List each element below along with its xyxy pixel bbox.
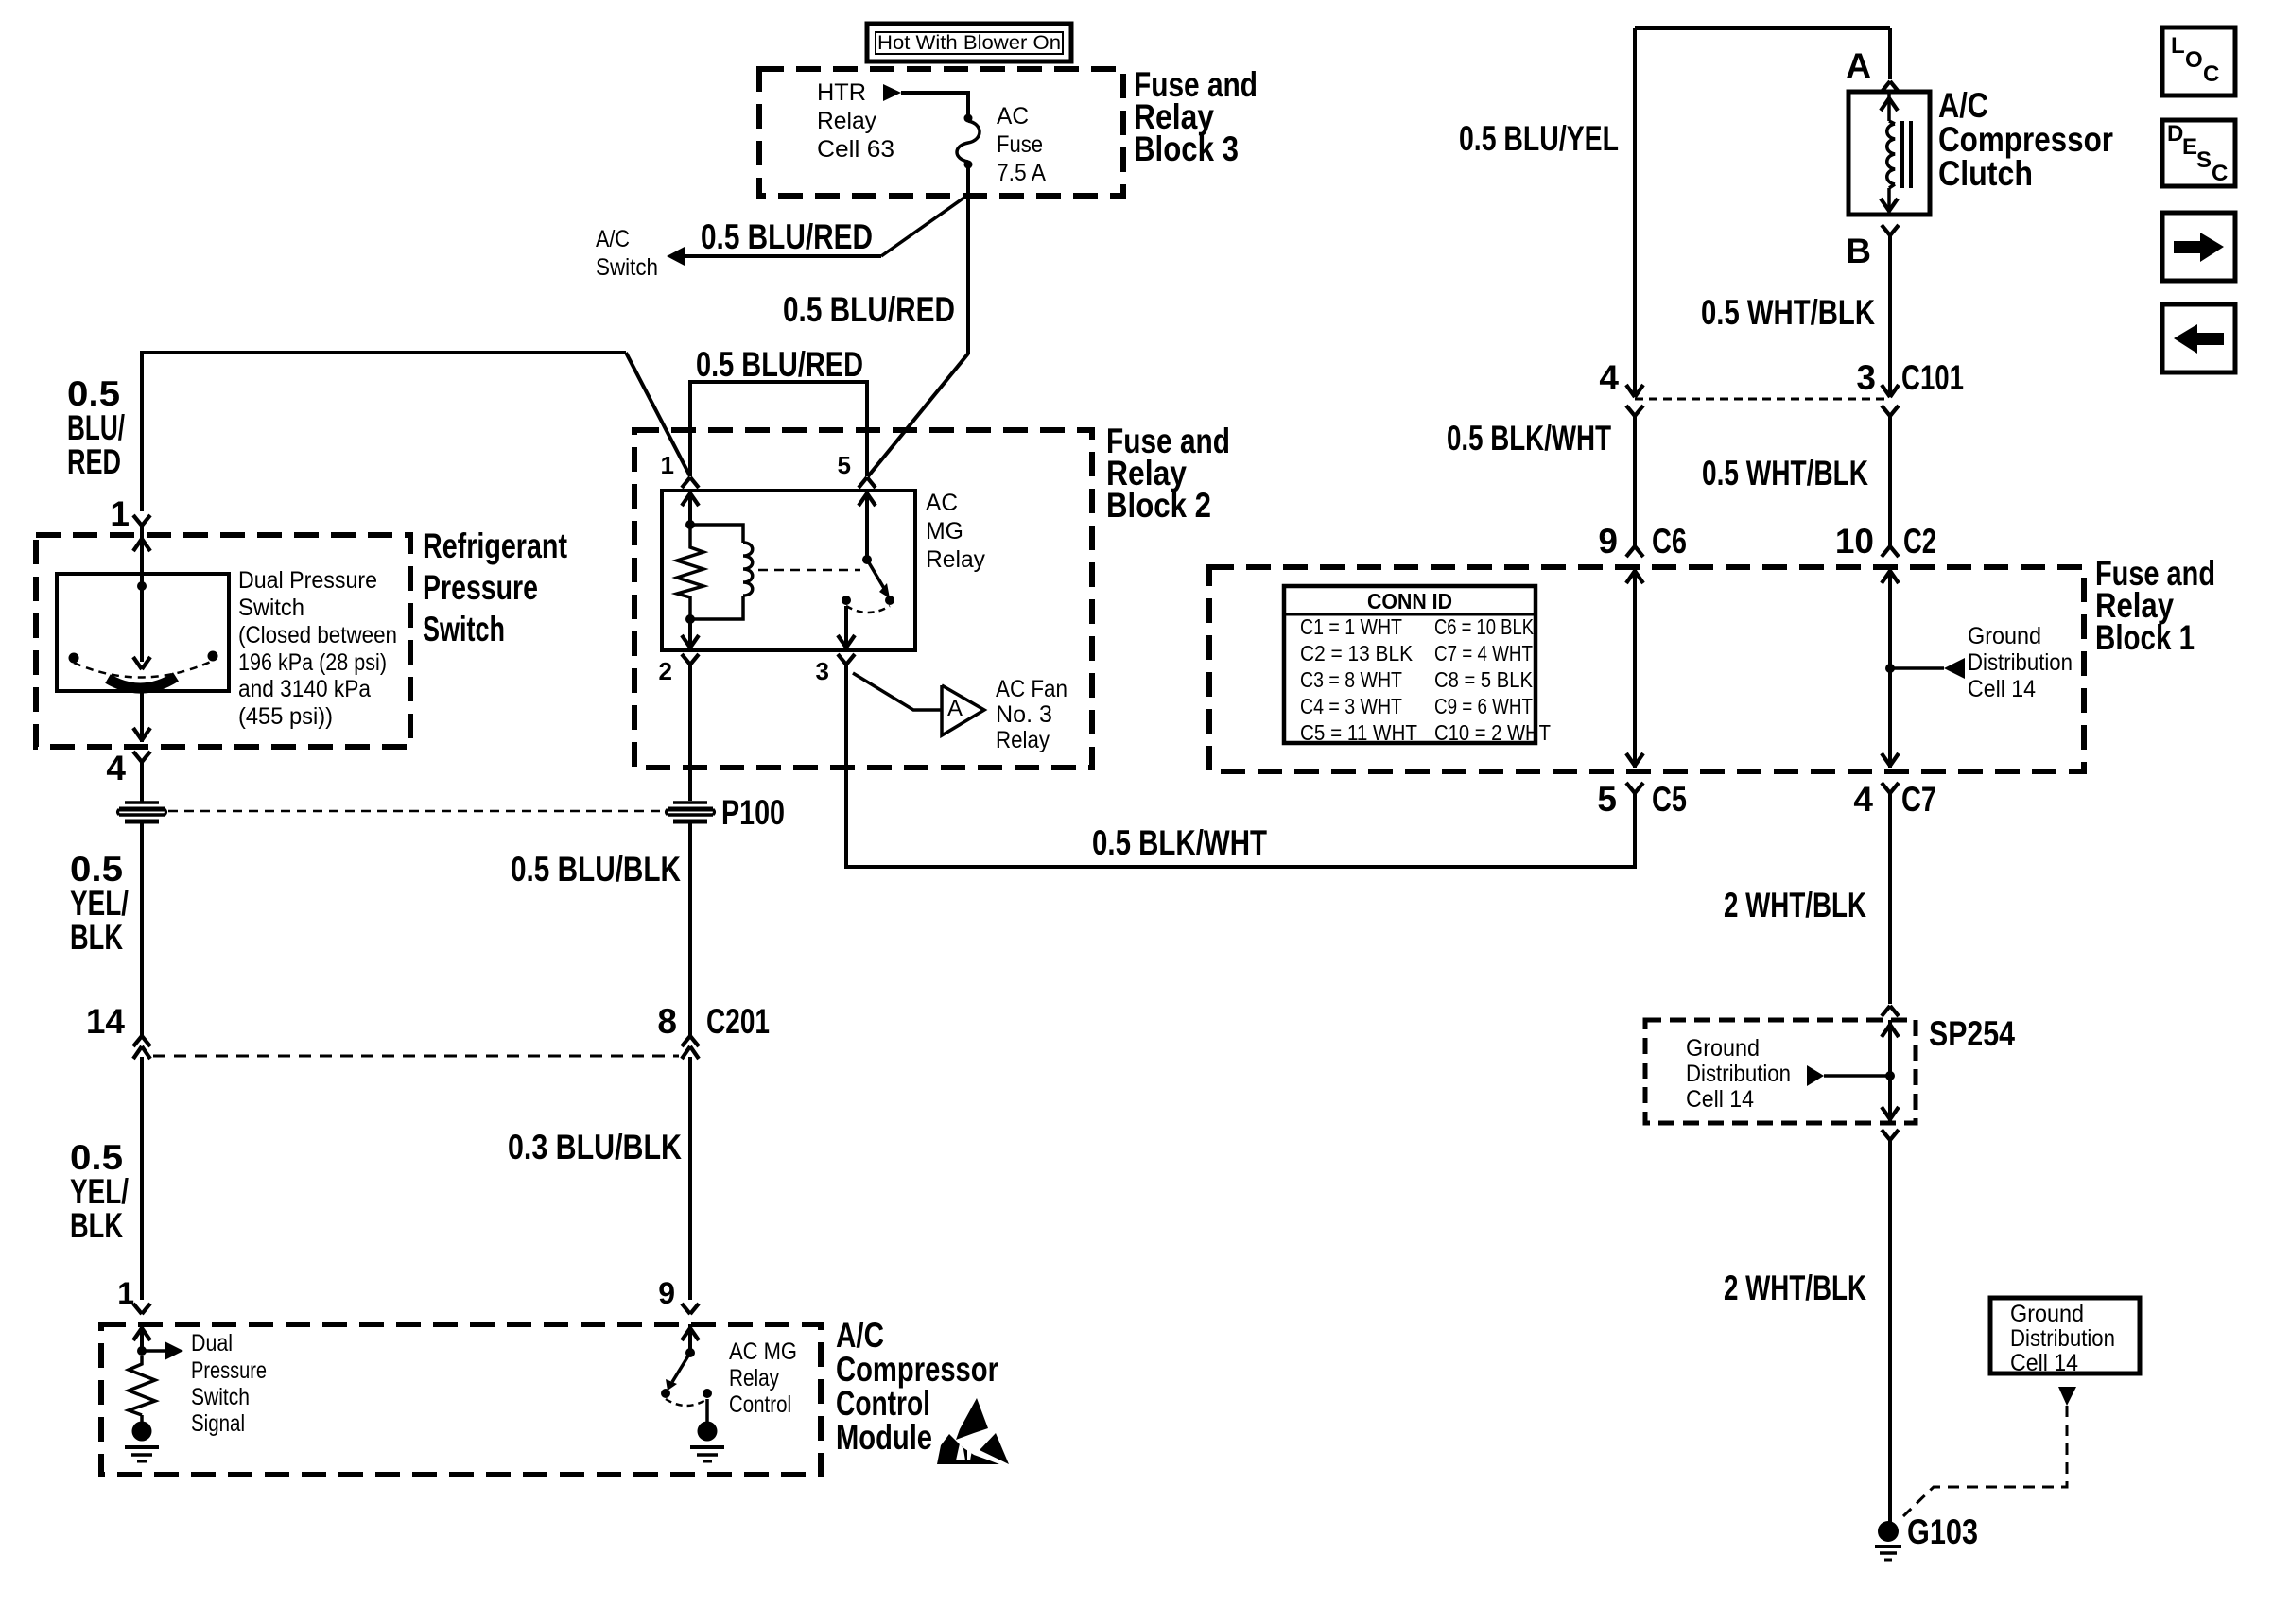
dashed box A/C Compressor Control Module [101, 1324, 821, 1475]
wire clutch feed [1888, 28, 1892, 79]
svg-text:Distribution: Distribution [2010, 1325, 2115, 1352]
label HTR Relay Cell 63 [817, 79, 894, 163]
pin 3 label (C101) [1856, 358, 1876, 397]
block1 ground distribution arrow [1890, 658, 1965, 679]
svg-text:AC: AC [926, 490, 958, 516]
arrow to HTR Relay [883, 84, 901, 101]
ESD warning symbol [937, 1398, 1009, 1464]
label C2 [1903, 522, 1936, 561]
svg-text:Relay: Relay [996, 727, 1050, 753]
svg-text:7.5 A: 7.5 A [997, 160, 1046, 186]
switch top dot [137, 581, 147, 591]
svg-text:Cell 14: Cell 14 [2010, 1350, 2078, 1376]
wire below P100 left [140, 821, 144, 1036]
svg-text:Pressure: Pressure [423, 568, 538, 607]
pin 4 label [106, 749, 126, 787]
label Refrigerant Pressure Switch [423, 527, 567, 648]
relay coil-side pin1 entry [682, 491, 699, 522]
svg-text:Module: Module [836, 1418, 932, 1457]
pin 3 label [816, 657, 829, 685]
wire pin4 to P100 [140, 762, 144, 803]
svg-text:HTR: HTR [817, 79, 866, 106]
wire pin3 to C5 [846, 665, 1635, 867]
svg-text:5: 5 [838, 451, 851, 479]
svg-text:(Closed between: (Closed between [238, 622, 397, 648]
label C6 [1652, 522, 1687, 561]
pin 9 label (module) [658, 1276, 675, 1310]
dashed line C101 [1635, 398, 1890, 401]
svg-text:Switch: Switch [423, 610, 505, 648]
button DESC [2162, 120, 2235, 186]
svg-text:4: 4 [1853, 780, 1873, 819]
svg-text:C201: C201 [706, 1002, 770, 1041]
svg-text:Block 2: Block 2 [1106, 486, 1211, 525]
label A/C Compressor Control Module [836, 1316, 998, 1457]
svg-text:C7: C7 [1901, 780, 1936, 819]
svg-text:BLK: BLK [70, 1206, 123, 1245]
pin B label [1846, 232, 1871, 270]
svg-text:Compressor: Compressor [836, 1350, 998, 1389]
pin 2 connector [682, 654, 699, 665]
relay switch pivot dot [862, 555, 872, 564]
svg-text:MG: MG [926, 518, 963, 544]
connector B [1882, 225, 1899, 235]
svg-text:Switch: Switch [191, 1384, 250, 1410]
wire label 0.5 WHT/BLK (lower) [1702, 454, 1868, 492]
svg-text:RED: RED [67, 442, 121, 481]
module ground (pin1 side) [125, 1415, 159, 1461]
module contact dashed arc [666, 1399, 707, 1406]
svg-text:3: 3 [816, 657, 829, 685]
pin 10 label (C2) [1835, 522, 1874, 561]
svg-text:No. 3: No. 3 [996, 701, 1052, 728]
svg-text:Switch: Switch [238, 595, 304, 621]
svg-text:Relay: Relay [926, 546, 985, 573]
wire top run [1635, 26, 1890, 30]
SP254 arrow [1807, 1065, 1890, 1086]
module pin1 dot [137, 1346, 147, 1356]
button LOC [2162, 27, 2235, 95]
wire label 0.5 YEL/ BLK (upper) [70, 850, 129, 957]
label C5 [1652, 780, 1687, 819]
label Dual Pressure Switch Signal [191, 1330, 267, 1437]
label Fuse and Relay Block 1 [2095, 554, 2215, 657]
pin 9 connector (module) [682, 1304, 699, 1314]
connector C201 right half [682, 1036, 699, 1300]
svg-text:9: 9 [1598, 522, 1618, 561]
wire diagonal to relay pin 1 [626, 353, 690, 476]
module pin9 entry [682, 1324, 699, 1350]
svg-text:Signal: Signal [191, 1410, 245, 1437]
resistor (relay) [677, 525, 703, 616]
wire label 0.5 BLU/YEL [1459, 119, 1619, 158]
svg-text:Dual Pressure: Dual Pressure [238, 567, 377, 594]
connector C5 [1626, 783, 1643, 793]
svg-text:C7 = 4 WHT: C7 = 4 WHT [1434, 641, 1533, 665]
connector into SP254 [1882, 1006, 1899, 1016]
wire label 2 WHT/BLK (lower) [1724, 1269, 1866, 1307]
svg-text:BLK: BLK [70, 918, 123, 957]
junction dot coil bottom [685, 614, 695, 624]
relay coil [690, 525, 753, 619]
svg-text:3: 3 [1856, 358, 1876, 397]
svg-text:1: 1 [117, 1276, 134, 1310]
wire label 0.5 BLU/ RED (left) [67, 374, 125, 481]
wire label 0.5 BLU/RED (loop) [696, 345, 863, 384]
svg-text:C8 = 5 BLK: C8 = 5 BLK [1434, 667, 1534, 692]
switch contact dot right [208, 651, 218, 662]
svg-text:(455 psi)): (455 psi)) [238, 703, 333, 730]
svg-text:A: A [947, 696, 963, 721]
svg-text:BLU/: BLU/ [67, 408, 125, 447]
module contact dot left [661, 1389, 670, 1398]
SP254 wire [1882, 1020, 1899, 1123]
relay box AC MG Relay [662, 491, 915, 650]
connector C7 [1882, 783, 1899, 793]
svg-text:0.5 BLU/RED: 0.5 BLU/RED [783, 290, 955, 329]
svg-text:Dual: Dual [191, 1330, 233, 1356]
svg-text:A/C: A/C [1938, 86, 1988, 125]
grommet P100 (right) [667, 803, 715, 821]
svg-text:AC MG: AC MG [729, 1339, 797, 1365]
wire diagonal fuse to relay pin 5 [868, 354, 968, 476]
svg-text:P100: P100 [721, 793, 785, 832]
label A/C Compressor Clutch [1938, 86, 2113, 193]
svg-text:4: 4 [106, 749, 126, 787]
svg-text:YEL/: YEL/ [70, 1172, 129, 1211]
relay mechanical dashed link [758, 569, 860, 572]
dual pressure switch box [57, 574, 229, 691]
junction dot coil top [685, 520, 695, 529]
wire label 0.5 BLK/WHT (long run) [1092, 823, 1267, 862]
pin 1 connector (module) [133, 1304, 150, 1314]
relay contact dashed arc [846, 606, 890, 613]
label Ground Distribution Cell 14 (SP254) [1686, 1035, 1791, 1113]
module switch arm [666, 1353, 690, 1391]
svg-text:C1 = 1 WHT: C1 = 1 WHT [1300, 614, 1402, 639]
svg-text:0.5 BLU/BLK: 0.5 BLU/BLK [511, 850, 681, 889]
label AC Fuse 7.5 A [997, 103, 1046, 186]
module signal arrow [142, 1341, 183, 1360]
label C101 [1901, 358, 1964, 397]
svg-text:4: 4 [1599, 358, 1619, 397]
svg-text:Cell 63: Cell 63 [817, 136, 894, 163]
pin 1 connector [682, 477, 699, 488]
connector into pressure switch [133, 515, 150, 526]
triangle below ground distribution box [2058, 1387, 2076, 1406]
svg-text:0.5 WHT/BLK: 0.5 WHT/BLK [1702, 454, 1868, 492]
dashed line C201 [153, 1055, 679, 1058]
label AC MG Relay Control [729, 1339, 797, 1418]
module pin9 dot [685, 1348, 695, 1357]
svg-text:Block 1: Block 1 [2095, 618, 2195, 657]
svg-text:2 WHT/BLK: 2 WHT/BLK [1724, 1269, 1866, 1307]
wire HTR arrow to AC fuse [901, 93, 968, 115]
svg-text:0.5 BLU/YEL: 0.5 BLU/YEL [1459, 119, 1619, 158]
switch actuator arrow [133, 586, 150, 669]
svg-text:AC Fan: AC Fan [996, 676, 1067, 702]
wire label 0.5 BLU/BLK [511, 850, 681, 889]
block1 left wire [1626, 567, 1643, 768]
dashed box Fuse and Relay Block 1 [1209, 567, 2084, 771]
svg-text:0.5: 0.5 [70, 1138, 123, 1177]
pin 5 connector [859, 477, 876, 488]
svg-text:C9 = 6 WHT: C9 = 6 WHT [1434, 694, 1533, 718]
module pin1 entry [133, 1324, 150, 1348]
connector C101 right [1882, 385, 1899, 546]
svg-text:L: L [2171, 33, 2185, 59]
wire label 2 WHT/BLK (upper) [1724, 886, 1866, 924]
button prev arrow [2162, 304, 2235, 372]
svg-text:C2: C2 [1903, 522, 1936, 561]
svg-text:Relay: Relay [729, 1365, 779, 1391]
label A/C Switch [596, 226, 658, 281]
block1 right wire [1882, 567, 1899, 768]
svg-text:E: E [2182, 134, 2197, 160]
svg-text:1: 1 [661, 451, 674, 479]
wire left vertical to C101 [1633, 28, 1637, 397]
clutch plates [1902, 121, 1911, 188]
label G103 [1907, 1512, 1978, 1551]
wire loop pin1 to pin5 [690, 382, 867, 476]
svg-text:C6 = 10 BLK: C6 = 10 BLK [1434, 614, 1535, 639]
pin 1 label [661, 451, 674, 479]
wire from fuse down [966, 164, 970, 354]
wire horizontal to refrigerant pressure switch [142, 353, 626, 511]
wire label 0.5 BLU/RED (to A/C switch) [701, 217, 873, 256]
fuse F1 'AC Fuse 7.5 A' [957, 114, 980, 169]
relay arrow to pin 2 [682, 619, 699, 650]
wire pin2 to P100 [688, 665, 692, 801]
dashed line P100 [168, 810, 664, 813]
AC Fan No. 3 Relay triangle [942, 685, 984, 735]
connector below SP254 [1882, 1130, 1899, 1140]
dashed box Refrigerant Pressure Switch [36, 535, 410, 747]
svg-text:1: 1 [110, 494, 130, 533]
relay arrow to pin 3 [838, 606, 855, 650]
svg-text:0.5: 0.5 [70, 850, 123, 889]
svg-text:5: 5 [1597, 780, 1617, 819]
wire below P100 right [688, 821, 692, 1036]
svg-text:CONN ID: CONN ID [1367, 589, 1452, 613]
module resistor [129, 1356, 155, 1415]
connector below pressure switch [133, 752, 150, 762]
svg-text:O: O [2185, 47, 2203, 73]
wire label 0.5 WHT/BLK (upper) [1701, 293, 1875, 332]
svg-text:Compressor: Compressor [1938, 120, 2113, 159]
pin 1 label (pressure switch) [110, 494, 130, 533]
wire into switch box [133, 526, 150, 586]
svg-text:C: C [2203, 61, 2219, 87]
label AC MG Relay [926, 490, 985, 573]
clutch coil [1881, 92, 1898, 215]
pin 4 label (C101) [1599, 358, 1619, 397]
module contact dot right [703, 1389, 712, 1398]
connector A [1882, 81, 1899, 92]
A/C Compressor Clutch box [1848, 92, 1930, 215]
svg-text:C5 = 11 WHT: C5 = 11 WHT [1300, 720, 1417, 745]
wire label 0.5 BLU/RED (from fuse) [783, 290, 955, 329]
svg-text:A/C: A/C [596, 226, 630, 252]
wire diagonal fuse to A/C switch line [881, 195, 968, 256]
ground G103 [1875, 1521, 1901, 1560]
pin 1 label (module) [117, 1276, 134, 1310]
switch diaphragm crescent [108, 677, 176, 688]
label C201 [706, 1002, 770, 1041]
label Dual Pressure Switch details [238, 567, 397, 730]
svg-text:Control: Control [836, 1384, 930, 1423]
svg-text:SP254: SP254 [1929, 1014, 2015, 1053]
svg-text:C10 = 2 WHT: C10 = 2 WHT [1434, 720, 1551, 745]
svg-text:AC: AC [997, 103, 1029, 130]
svg-text:C3 = 8 WHT: C3 = 8 WHT [1300, 667, 1402, 692]
svg-text:9: 9 [658, 1276, 675, 1310]
svg-text:0.5 BLK/WHT: 0.5 BLK/WHT [1092, 823, 1267, 862]
connector C101 left [1626, 385, 1643, 546]
Ground Distribution Cell 14 box (bottom right) [1990, 1298, 2140, 1376]
svg-text:Cell 14: Cell 14 [1686, 1086, 1754, 1113]
svg-text:Hot With Blower On: Hot With Blower On [877, 32, 1061, 54]
grommet P100 (left) [118, 803, 166, 821]
svg-text:0.5: 0.5 [67, 374, 120, 413]
svg-text:and 3140 kPa: and 3140 kPa [238, 676, 371, 702]
dashed box Fuse and Relay Block 2 [634, 430, 1092, 768]
relay stationary contact dot [842, 596, 851, 605]
svg-text:0.3 BLU/BLK: 0.3 BLU/BLK [508, 1128, 682, 1166]
label AC Fan No. 3 Relay [996, 676, 1067, 753]
button next arrow [2162, 213, 2235, 281]
svg-text:0.5 BLK/WHT: 0.5 BLK/WHT [1447, 419, 1611, 458]
label Ground Distribution Cell 14 (block1) [1968, 623, 2073, 702]
connector C2 [1882, 546, 1899, 557]
pin 14 label [86, 1002, 126, 1041]
dashed link to G103 [1903, 1406, 2067, 1516]
switch contact dot left [69, 653, 79, 664]
block1 ground distribution dot [1885, 664, 1895, 673]
wire label 0.5 YEL/ BLK (lower) [70, 1138, 129, 1245]
svg-text:C5: C5 [1652, 780, 1687, 819]
svg-text:Switch: Switch [596, 254, 658, 281]
connector C6 [1626, 546, 1643, 557]
svg-text:C4 = 3 WHT: C4 = 3 WHT [1300, 694, 1402, 718]
svg-text:D: D [2167, 121, 2183, 147]
svg-text:0.5 WHT/BLK: 0.5 WHT/BLK [1701, 293, 1875, 332]
svg-text:Clutch: Clutch [1938, 154, 2033, 193]
wire B to C101 [1888, 235, 1892, 397]
svg-text:B: B [1846, 232, 1871, 270]
svg-text:Ground: Ground [1686, 1035, 1760, 1062]
svg-text:Control: Control [729, 1391, 791, 1418]
svg-text:Refrigerant: Refrigerant [423, 527, 567, 565]
svg-text:Cell 14: Cell 14 [1968, 676, 2036, 702]
label Fuse and Relay Block 2 [1106, 422, 1230, 525]
power feed box 'Hot With Blower On' [867, 24, 1071, 61]
pin 5 label [838, 451, 851, 479]
wire SP254 to G103 [1888, 1140, 1892, 1524]
dashed box Fuse and Relay Block 3 [759, 69, 1123, 196]
svg-text:G103: G103 [1907, 1512, 1978, 1551]
svg-text:C2 = 13 BLK: C2 = 13 BLK [1300, 641, 1414, 665]
pin 3 connector [838, 654, 855, 665]
pin 9 label (C6) [1598, 522, 1618, 561]
pin 2 label [659, 657, 672, 685]
label Fuse and Relay Block 3 [1134, 65, 1258, 168]
svg-text:196 kPa (28 psi): 196 kPa (28 psi) [238, 649, 387, 676]
wire label 0.5 BLK/WHT (left) [1447, 419, 1611, 458]
svg-text:C101: C101 [1901, 358, 1964, 397]
pin A label [1846, 46, 1871, 85]
pin 5 label (C5) [1597, 780, 1617, 819]
wire pin3 diagonal to AC Fan relay [853, 673, 941, 710]
label C7 [1901, 780, 1936, 819]
svg-text:Ground: Ground [1968, 623, 2041, 649]
dashed box SP254 Ground Distribution [1645, 1020, 1916, 1123]
svg-text:Distribution: Distribution [1686, 1061, 1791, 1087]
pin 4 label (C7) [1853, 780, 1873, 819]
wire C7 to SP254 [1888, 793, 1892, 1004]
svg-text:S: S [2196, 147, 2212, 173]
label P100 [721, 793, 785, 832]
svg-text:Block 3: Block 3 [1134, 130, 1239, 168]
switch dashed contact arc [74, 661, 213, 678]
svg-text:Pressure: Pressure [191, 1357, 267, 1384]
pin 8 label [657, 1002, 677, 1041]
svg-text:Relay: Relay [817, 108, 876, 134]
svg-text:0.5 BLU/RED: 0.5 BLU/RED [696, 345, 863, 384]
connector C201 left half [133, 1036, 150, 1300]
svg-text:8: 8 [657, 1002, 677, 1041]
svg-text:10: 10 [1835, 522, 1874, 561]
wire out of switch box [133, 691, 150, 742]
svg-text:14: 14 [86, 1002, 126, 1041]
svg-text:2: 2 [659, 657, 672, 685]
svg-text:C: C [2212, 161, 2228, 186]
svg-text:YEL/: YEL/ [70, 884, 129, 923]
SP254 junction dot [1885, 1071, 1895, 1080]
wire label 0.3 BLU/BLK [508, 1128, 682, 1166]
label SP254 [1929, 1014, 2015, 1053]
svg-text:Ground: Ground [2010, 1301, 2084, 1327]
svg-text:A: A [1846, 46, 1871, 85]
svg-text:2 WHT/BLK: 2 WHT/BLK [1724, 886, 1866, 924]
relay moving contact [867, 560, 894, 605]
CONN ID table [1284, 586, 1551, 745]
svg-text:A/C: A/C [836, 1316, 884, 1355]
svg-text:Distribution: Distribution [1968, 649, 2073, 676]
module ground (pin9 side) [690, 1399, 724, 1461]
svg-text:C6: C6 [1652, 522, 1687, 561]
wire to A/C Switch with arrow [667, 247, 881, 266]
svg-text:0.5 BLU/RED: 0.5 BLU/RED [701, 217, 873, 256]
relay switch pin5 entry [859, 491, 876, 560]
svg-text:Fuse: Fuse [997, 131, 1043, 158]
